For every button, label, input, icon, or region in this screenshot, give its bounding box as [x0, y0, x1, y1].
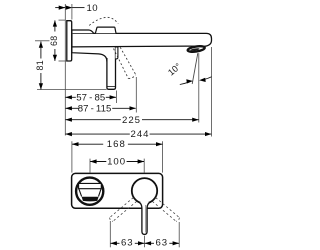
spout cutout front view — [76, 178, 103, 205]
svg-text:63: 63 — [155, 237, 168, 248]
svg-text:100: 100 — [107, 156, 126, 167]
dim 244 — [66, 129, 212, 140]
svg-text:63: 63 — [121, 237, 134, 248]
wall line — [64, 4, 66, 136]
dim 168 — [72, 139, 163, 172]
dim 68 — [49, 20, 66, 61]
svg-text:57 - 85: 57 - 85 — [76, 93, 105, 104]
svg-text:225: 225 — [122, 115, 141, 126]
stream angled line 10deg — [192, 53, 198, 84]
dim 100 — [90, 156, 144, 172]
dim 81 — [35, 41, 107, 90]
aerator (side view) — [187, 45, 205, 53]
dim 57-85 — [66, 93, 117, 104]
dim 10 — [55, 3, 98, 14]
handle front view — [132, 178, 157, 234]
extension line dashed lever tip — [135, 77, 137, 113]
dim 225 — [66, 115, 199, 126]
spout tip extension — [211, 47, 213, 137]
handle base under spout — [72, 47, 107, 62]
dim 63 63 — [110, 221, 179, 248]
svg-text:10: 10 — [87, 3, 98, 14]
extension line lever tip — [116, 91, 118, 104]
svg-text:168: 168 — [107, 139, 126, 150]
plate front view — [72, 173, 163, 208]
dim 87-115 — [66, 103, 136, 114]
extension line plate front — [71, 4, 73, 20]
svg-text:87 - 115: 87 - 115 — [78, 103, 112, 114]
lever handle (closed, hanging down) — [107, 47, 116, 89]
dashed lever swing left — [110, 198, 137, 222]
angle arrows 10deg — [180, 77, 212, 85]
collar tab right of lever — [116, 47, 118, 59]
stream vertical reference — [198, 53, 200, 122]
svg-text:68: 68 — [49, 36, 59, 46]
plate (escutcheon side view) — [67, 21, 72, 61]
cap bump low (body ring at plate) — [72, 30, 94, 33]
dashed lever swing right — [152, 198, 179, 222]
svg-text:81: 81 — [35, 60, 45, 70]
dashed arc lever raised — [89, 17, 118, 25]
spout body side view — [72, 33, 212, 47]
svg-text:244: 244 — [130, 129, 149, 140]
dashed lever open position — [114, 49, 129, 79]
cap bump (cartridge cover) — [95, 27, 116, 33]
